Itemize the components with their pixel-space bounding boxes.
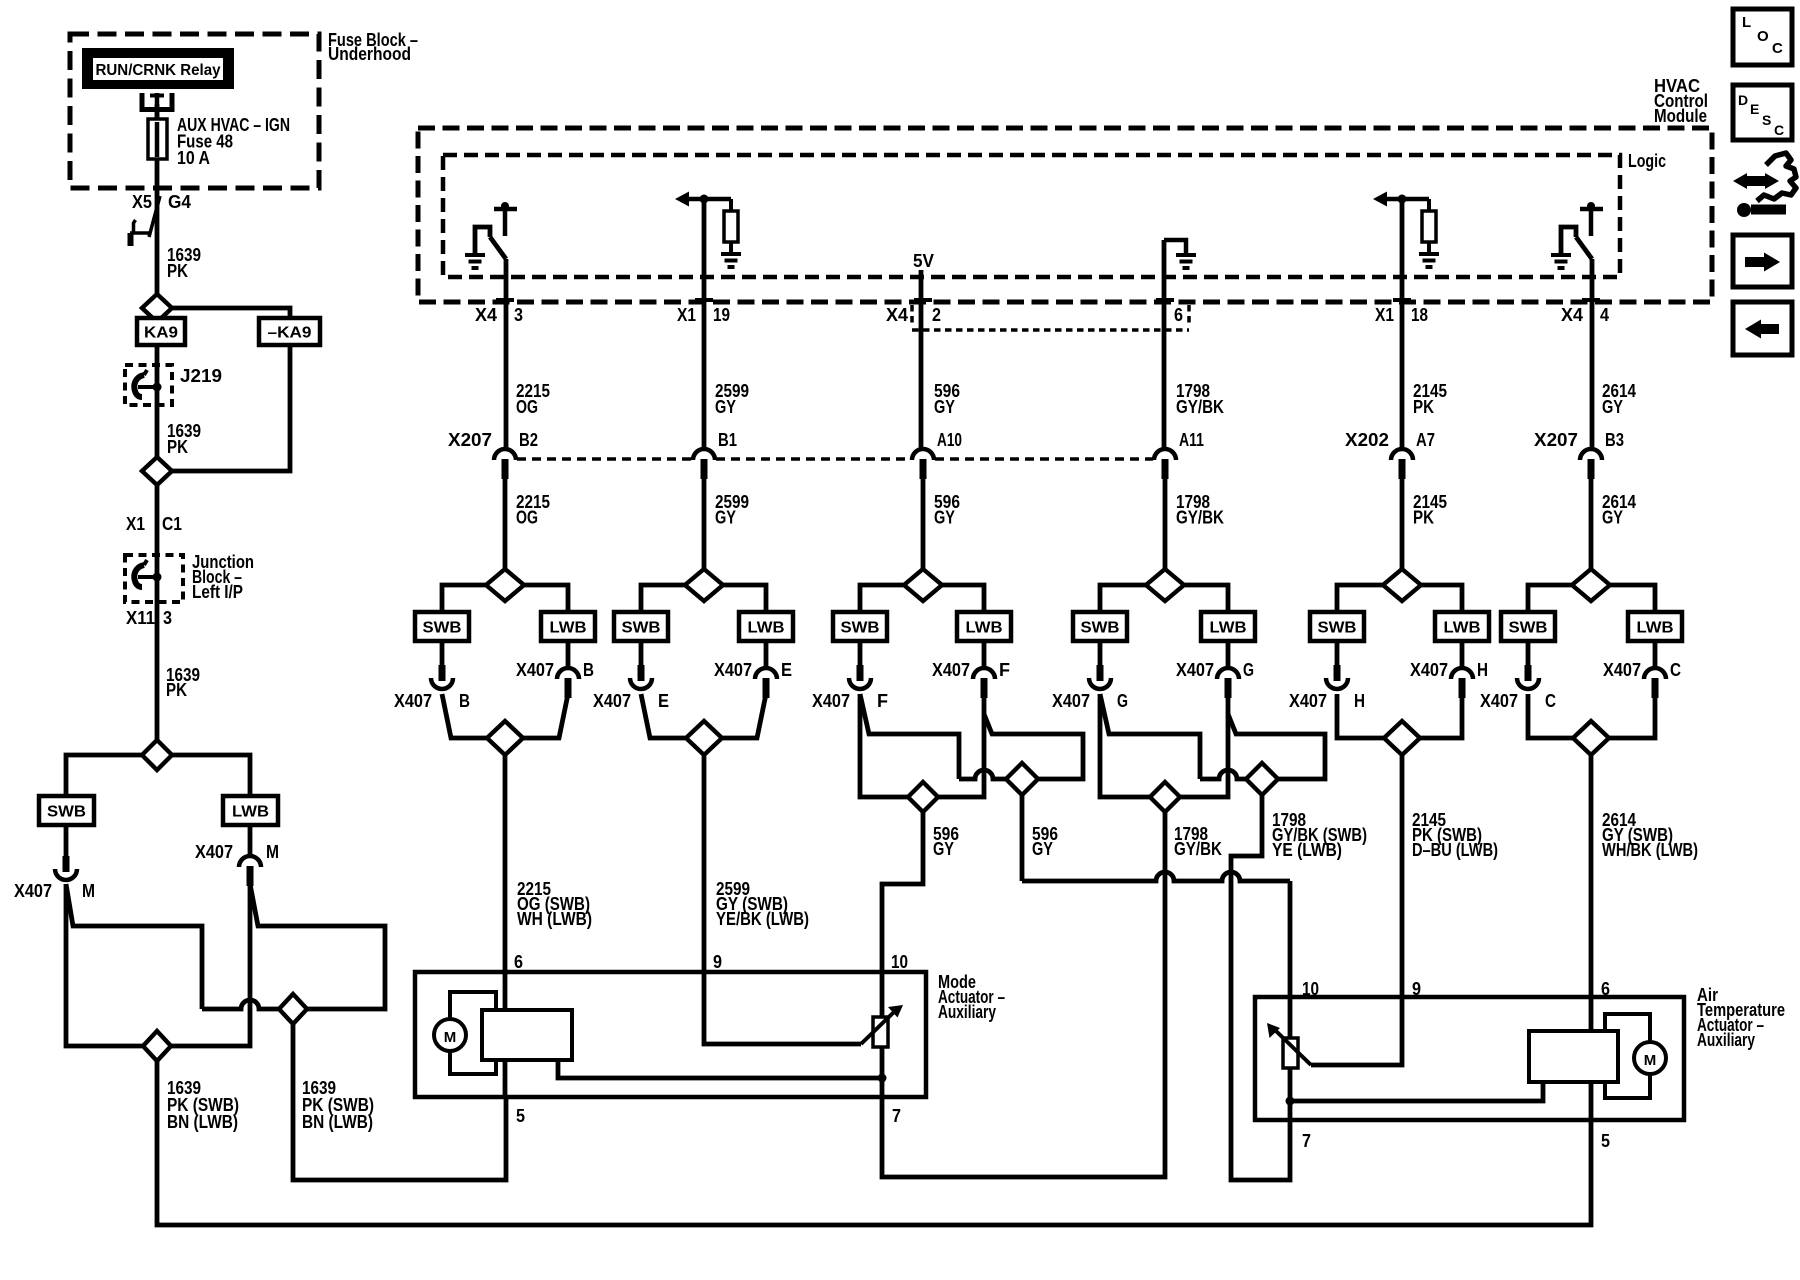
wire label 1639 PK lower xyxy=(166,665,200,700)
wire airtemp pin5 inside xyxy=(1589,1080,1594,1120)
pin tick x505 xyxy=(496,298,514,302)
connector X4 dotted bracket xyxy=(912,305,1189,330)
svg-text:O: O xyxy=(1757,28,1769,45)
wire label 596 GY first xyxy=(933,824,959,859)
junction block label xyxy=(192,552,254,602)
wire label 2599 GY upper x704 xyxy=(715,381,749,417)
svg-text:BN (LWB): BN (LWB) xyxy=(302,1112,373,1132)
connector X407 LWB x704 xyxy=(755,668,777,698)
svg-text:X207: X207 xyxy=(448,430,492,450)
svg-text:M: M xyxy=(1644,1052,1657,1069)
svg-text:S: S xyxy=(1762,112,1771,128)
dashed connector line seg3 xyxy=(935,457,1153,461)
mode potentiometer xyxy=(861,1005,903,1047)
svg-text:GY: GY xyxy=(934,397,955,417)
svg-text:GY: GY xyxy=(933,839,954,859)
svg-text:OG: OG xyxy=(516,397,538,417)
wire label 596 GY lower x923 xyxy=(934,492,960,528)
rejoin diamond x704 xyxy=(686,721,722,755)
connector X407 SWB x923 xyxy=(849,665,871,689)
svg-text:G4: G4 xyxy=(168,192,191,212)
svg-text:GY: GY xyxy=(715,508,736,528)
mode actuator auxiliary box xyxy=(415,972,926,1097)
svg-text:GY/BK: GY/BK xyxy=(1174,839,1222,859)
svg-text:SWB: SWB xyxy=(1081,620,1120,637)
svg-text:M: M xyxy=(82,881,95,901)
svg-text:4: 4 xyxy=(1600,305,1609,325)
wire SWB conn down x505 xyxy=(442,694,487,738)
svg-text:X407: X407 xyxy=(14,881,52,901)
svg-text:X407: X407 xyxy=(394,691,432,711)
svg-text:LWB: LWB xyxy=(1444,620,1481,637)
icon box LOC xyxy=(1733,9,1792,65)
pin tick x1591 xyxy=(1582,298,1600,302)
svg-text:6: 6 xyxy=(1174,305,1183,325)
svg-text:GY/BK: GY/BK xyxy=(1176,508,1224,528)
air temp actuator label xyxy=(1697,985,1785,1050)
svg-text:X407: X407 xyxy=(714,660,752,680)
svg-text:Auxiliary: Auxiliary xyxy=(1697,1030,1755,1050)
wire 596 to airtemp pin10 drop xyxy=(1288,881,1293,997)
wire label 1639 PK mid xyxy=(167,421,201,457)
svg-text:6: 6 xyxy=(1601,979,1610,999)
wire split to LWB x1165 xyxy=(1184,585,1228,612)
pin tick x1402 xyxy=(1393,298,1411,302)
svg-text:3: 3 xyxy=(514,305,523,325)
wire LWB box to conn x1402 xyxy=(1460,641,1465,668)
wire loop to d2 with hop x1165 xyxy=(1200,770,1246,779)
wire col3 5V output xyxy=(919,270,924,448)
wire SWB conn down x1591 xyxy=(1528,694,1573,738)
svg-text:10: 10 xyxy=(1302,979,1319,999)
wire label 2599 GY lower x704 xyxy=(715,492,749,528)
wire 1798 D2 to airtemp pin7 loop xyxy=(1231,795,1290,1180)
relay contact symbol xyxy=(140,93,175,122)
svg-text:A11: A11 xyxy=(1179,430,1204,450)
svg-text:6: 6 xyxy=(514,952,523,972)
wire loop to d2 with hop x923 xyxy=(959,770,1006,779)
wire SWB box to conn x1402 xyxy=(1335,641,1340,667)
wire branch S1 to -KA9 xyxy=(171,308,290,318)
module driver B output arrow xyxy=(675,192,731,207)
wire SWB diag loop a x923 xyxy=(860,694,959,779)
airtemp motor xyxy=(1605,1014,1666,1098)
wire label 1798 GYBK xyxy=(1174,824,1222,859)
wire SWB straight x923 xyxy=(860,694,908,797)
wire split to LWB x505 xyxy=(524,585,568,612)
svg-text:LWB: LWB xyxy=(748,620,785,637)
svg-text:X407: X407 xyxy=(932,660,970,680)
wire x1165 to split diamond xyxy=(1163,475,1168,569)
wire 2145 down to airtemp pin9 xyxy=(1400,755,1405,997)
module switch F switch blade xyxy=(1576,237,1592,259)
dashed connector line seg1 xyxy=(517,457,692,461)
wire LWB straight x1165 xyxy=(1180,694,1228,797)
splice diamond S3 xyxy=(142,740,172,770)
wire split to SWB x505 xyxy=(442,585,486,612)
wire LWB box to conn x923 xyxy=(982,641,987,668)
connector X407 SWB x505 xyxy=(431,665,453,689)
fuse block underhood label xyxy=(328,30,418,64)
svg-text:C: C xyxy=(1670,660,1681,680)
wire SWB box to conn x505 xyxy=(440,641,445,667)
terminal hook in junction block xyxy=(134,560,161,587)
svg-text:J219: J219 xyxy=(180,366,222,386)
wire x505 to split diamond xyxy=(503,475,508,569)
svg-text:B2: B2 xyxy=(519,430,538,450)
svg-text:WH/BK (LWB): WH/BK (LWB) xyxy=(1602,840,1698,860)
mode motor xyxy=(434,992,496,1074)
svg-text:18: 18 xyxy=(1411,305,1428,325)
svg-text:GY: GY xyxy=(715,397,736,417)
wire LWB box to conn x505 xyxy=(566,641,571,668)
svg-text:–KA9: –KA9 xyxy=(268,325,312,342)
module ground col4 xyxy=(1176,255,1196,268)
wire loop to splice S4 with hop xyxy=(202,1000,279,1009)
wire -KA9 down to S2 xyxy=(172,345,290,471)
fuse 48 label xyxy=(177,115,290,168)
splice diamond D1 x923 xyxy=(908,782,938,812)
module switch A chassis ground xyxy=(465,255,485,268)
mode gearbox stub to wiper bus xyxy=(558,1060,878,1078)
module driver E pull-up resistor xyxy=(1422,199,1436,253)
logic dashed box xyxy=(443,155,1620,277)
in-line connector B3 x1591 xyxy=(1580,449,1602,479)
wire label 2614 GY/WHBK xyxy=(1602,810,1698,860)
option box LWB x505 xyxy=(541,612,595,641)
module switch F switch wire to ground xyxy=(1561,227,1576,253)
option box SWB left xyxy=(39,796,94,825)
connector X407 LWB x1402 xyxy=(1451,668,1473,698)
svg-text:F: F xyxy=(999,660,1010,680)
pin tick x1165 xyxy=(1156,298,1174,302)
svg-text:SWB: SWB xyxy=(622,620,661,637)
split diamond x505 xyxy=(486,569,524,601)
wire label 2145 PK lower x1402 xyxy=(1413,492,1447,528)
svg-text:D: D xyxy=(1738,92,1748,108)
option box SWB x1591 xyxy=(1501,612,1555,641)
connector X407 SWB x1402 xyxy=(1326,665,1348,689)
split diamond x923 xyxy=(904,569,942,601)
svg-text:LWB: LWB xyxy=(1637,620,1674,637)
svg-text:OG: OG xyxy=(516,508,538,528)
wire SWB box to conn x1591 xyxy=(1526,641,1531,667)
rejoin diamond x1591 xyxy=(1573,721,1609,755)
wire S3 to SWB-M xyxy=(66,755,142,796)
connector X5 lead symbol xyxy=(130,196,160,246)
wire SWB-M straight down xyxy=(66,884,143,1046)
wire label 2215 OG upper x505 xyxy=(516,381,550,417)
svg-text:SWB: SWB xyxy=(423,620,462,637)
icon DESC letters xyxy=(1738,92,1784,138)
wire loop right of S4 xyxy=(250,884,385,1009)
svg-text:M: M xyxy=(266,842,279,862)
wire label 2215 OG lower x505 xyxy=(516,492,550,528)
airtemp wiper bus to gearbox xyxy=(1290,1082,1543,1101)
svg-text:E: E xyxy=(658,691,669,711)
wire split to LWB x704 xyxy=(723,585,766,612)
svg-text:A10: A10 xyxy=(937,430,962,450)
svg-text:GY: GY xyxy=(1602,508,1623,528)
connector X407 LWB x505 xyxy=(557,668,579,698)
icon LOC letters xyxy=(1742,14,1783,57)
wire label 1798 GY/BK upper x1165 xyxy=(1176,381,1224,417)
option box LWB x1165 xyxy=(1201,612,1255,641)
icon forward arrow xyxy=(1745,253,1780,272)
wire label 1798 GY/BK lower x1165 xyxy=(1176,492,1224,528)
svg-text:F: F xyxy=(877,691,888,711)
option box LWB x923 xyxy=(957,612,1011,641)
wire label 1798 GYBK/YE xyxy=(1272,810,1367,860)
wire split to SWB x704 xyxy=(641,585,685,612)
wire SWB box to conn x923 xyxy=(858,641,863,667)
split diamond x1591 xyxy=(1572,569,1610,601)
svg-text:PK: PK xyxy=(166,680,187,700)
svg-text:PK: PK xyxy=(167,261,188,281)
split diamond x1402 xyxy=(1383,569,1421,601)
mode actuator label xyxy=(938,972,1005,1022)
svg-text:X5: X5 xyxy=(132,192,152,212)
svg-text:PK: PK xyxy=(1413,508,1434,528)
in-line connector A11 x1165 xyxy=(1154,449,1176,479)
wire S5 down to bottom bus xyxy=(157,1061,1591,1225)
svg-text:X407: X407 xyxy=(516,660,554,680)
svg-text:X407: X407 xyxy=(1289,691,1327,711)
svg-text:2: 2 xyxy=(932,305,941,325)
svg-text:7: 7 xyxy=(892,1106,901,1126)
module switch A contact bar xyxy=(494,202,517,236)
svg-text:Logic: Logic xyxy=(1628,151,1666,171)
svg-text:SWB: SWB xyxy=(841,620,880,637)
svg-text:B1: B1 xyxy=(718,430,737,450)
in-line connector B1 x704 xyxy=(693,449,715,479)
module switch F contact bar xyxy=(1580,202,1603,236)
svg-text:7: 7 xyxy=(1302,1131,1311,1151)
svg-text:X4: X4 xyxy=(475,305,497,325)
svg-text:X207: X207 xyxy=(1534,430,1578,450)
option box SWB x505 xyxy=(415,612,469,641)
wire 596 D2 to airtemp pin10 hops xyxy=(1022,872,1290,881)
icon hand with arrows xyxy=(1733,153,1796,217)
dashed connector line seg2 xyxy=(716,457,911,461)
wire label 2599 GY/YEBK xyxy=(716,879,809,929)
svg-text:X407: X407 xyxy=(812,691,850,711)
connector X407 LWB x923 xyxy=(973,668,995,698)
wire col6 module output xyxy=(1590,259,1595,448)
wire SWB conn down x704 xyxy=(641,694,686,738)
svg-text:YE/BK (LWB): YE/BK (LWB) xyxy=(716,909,809,929)
split diamond x1165 xyxy=(1146,569,1184,601)
svg-text:19: 19 xyxy=(713,305,730,325)
wire KA9 down xyxy=(155,345,160,457)
wire LWB-M straight down xyxy=(171,884,250,1046)
svg-text:10 A: 10 A xyxy=(177,148,210,168)
splice diamond S4 xyxy=(279,994,307,1024)
wire d2 to far loop x923 xyxy=(984,714,1083,779)
wire label 596 GY second xyxy=(1032,824,1058,859)
connector X407 SWB x704 xyxy=(630,665,652,689)
svg-text:X407: X407 xyxy=(593,691,631,711)
svg-text:B: B xyxy=(459,691,470,711)
svg-text:Underhood: Underhood xyxy=(328,44,411,64)
svg-text:9: 9 xyxy=(1412,979,1421,999)
fuse block underhood box xyxy=(70,34,319,188)
relay coil KA9 box xyxy=(137,318,185,345)
svg-text:X407: X407 xyxy=(1176,660,1214,680)
svg-text:X407: X407 xyxy=(1480,691,1518,711)
wire airtemp pin9 inside xyxy=(1311,997,1402,1065)
wire label 1639 PK/BN first xyxy=(167,1078,239,1132)
relay RUN/CRNK box xyxy=(82,48,234,89)
wire LWB conn down x704 xyxy=(722,694,766,738)
svg-text:H: H xyxy=(1354,691,1365,711)
svg-text:SWB: SWB xyxy=(1509,620,1548,637)
air temperature actuator auxiliary box xyxy=(1255,997,1684,1120)
module switch A switch wire to ground xyxy=(475,227,490,253)
svg-text:SWB: SWB xyxy=(47,804,86,821)
icon box back arrow xyxy=(1733,302,1792,355)
svg-text:C: C xyxy=(1772,40,1783,57)
svg-text:LWB: LWB xyxy=(966,620,1003,637)
wire LWB box to conn x1165 xyxy=(1226,641,1231,668)
svg-text:X407: X407 xyxy=(1410,660,1448,680)
module driver B resistor ground xyxy=(721,254,741,267)
svg-text:A7: A7 xyxy=(1416,430,1435,450)
wire S4 down to mode actuator pin5 loop xyxy=(293,1024,506,1180)
svg-text:X4: X4 xyxy=(886,305,908,325)
wire label 2145 PK upper x1402 xyxy=(1413,381,1447,417)
connector X407 LWB x1165 xyxy=(1217,668,1239,698)
wire SWB box to conn x1165 xyxy=(1098,641,1103,667)
wire 2614 down to airtemp pin6 xyxy=(1589,755,1594,997)
svg-text:H: H xyxy=(1477,660,1488,680)
wire col4 module output xyxy=(1162,240,1167,448)
svg-text:GY: GY xyxy=(1602,397,1623,417)
wire fuse to X5 xyxy=(155,159,160,293)
splice diamond D2 x1165 xyxy=(1246,763,1278,795)
connector X407 LWB x1591 xyxy=(1644,668,1666,698)
wire SWB box to conn x704 xyxy=(639,641,644,667)
svg-text:C: C xyxy=(1545,691,1556,711)
connector X407 SWB x1591 xyxy=(1517,665,1539,689)
mode wiper junction dot xyxy=(878,1074,887,1083)
wire label 2145 PK/DBU xyxy=(1412,810,1498,860)
option box SWB x923 xyxy=(833,612,887,641)
wire LWB box to conn x1591 xyxy=(1653,641,1658,668)
svg-text:YE (LWB): YE (LWB) xyxy=(1272,840,1342,860)
wire LWB conn down x1402 xyxy=(1420,694,1462,738)
svg-text:LWB: LWB xyxy=(232,804,269,821)
svg-text:PK: PK xyxy=(167,437,188,457)
wire LWB straight x923 xyxy=(938,694,984,797)
svg-text:D–BU (LWB): D–BU (LWB) xyxy=(1412,840,1498,860)
module ground hook col4 xyxy=(1164,240,1186,254)
wire x1591 to split diamond xyxy=(1589,475,1594,569)
wire mode pin9 inside xyxy=(704,972,861,1044)
svg-text:X407: X407 xyxy=(1052,691,1090,711)
svg-text:X407: X407 xyxy=(1603,660,1641,680)
option box SWB x1165 xyxy=(1073,612,1127,641)
splice diamond D1 x1165 xyxy=(1150,782,1180,812)
splice diamond S5 xyxy=(143,1031,171,1061)
wire SWB straight x1165 xyxy=(1100,694,1150,797)
svg-text:C: C xyxy=(1774,122,1784,138)
split diamond x704 xyxy=(685,569,723,601)
svg-text:SWB: SWB xyxy=(1318,620,1357,637)
airtemp potentiometer xyxy=(1267,1023,1311,1068)
connector X407-M LWB xyxy=(239,856,261,886)
svg-text:X1: X1 xyxy=(677,305,696,325)
wire split to SWB x1165 xyxy=(1100,585,1146,612)
option box LWB left xyxy=(223,796,278,825)
wire SWB-M diagonal loop xyxy=(66,884,202,1009)
airtemp wiper junction dot xyxy=(1286,1097,1295,1106)
svg-text:LWB: LWB xyxy=(1210,620,1247,637)
in-line connector A10 x923 xyxy=(912,449,934,479)
rejoin diamond x505 xyxy=(487,721,523,755)
svg-text:5: 5 xyxy=(1601,1131,1610,1151)
svg-text:M: M xyxy=(444,1029,457,1046)
module switch A switch blade xyxy=(490,237,506,259)
wire col5 module output xyxy=(1400,199,1405,448)
option box LWB x1402 xyxy=(1435,612,1489,641)
svg-text:E: E xyxy=(1750,101,1759,117)
svg-text:LWB: LWB xyxy=(550,620,587,637)
svg-text:KA9: KA9 xyxy=(144,325,178,342)
module driver B pull-up resistor xyxy=(724,199,738,253)
connector X407 SWB x1165 xyxy=(1089,665,1111,689)
svg-text:X4: X4 xyxy=(1561,305,1583,325)
svg-text:WH (LWB): WH (LWB) xyxy=(517,909,592,929)
wire x704 to split diamond xyxy=(702,475,707,569)
svg-text:X202: X202 xyxy=(1345,430,1389,450)
wire split to LWB x923 xyxy=(942,585,984,612)
terminal hook in J219 xyxy=(134,370,161,397)
icon box DESC xyxy=(1733,85,1792,140)
junction block left I/P dashed box xyxy=(125,555,183,602)
relay contact -KA9 box xyxy=(259,318,320,345)
wire x923 to split diamond xyxy=(921,475,926,569)
wire col2 module output xyxy=(702,199,707,448)
wire label 2215 OG/WH xyxy=(517,879,592,929)
svg-text:G: G xyxy=(1243,660,1254,680)
svg-text:B3: B3 xyxy=(1605,430,1624,450)
wire label 1639 PK/BN second xyxy=(302,1078,374,1132)
airtemp gearbox xyxy=(1529,1031,1618,1082)
module driver E resistor ground xyxy=(1419,254,1439,267)
svg-text:X1: X1 xyxy=(126,514,145,534)
svg-text:E: E xyxy=(781,660,792,680)
wire S2 down to junction block xyxy=(155,485,160,741)
svg-text:Auxiliary: Auxiliary xyxy=(938,1002,996,1022)
wire S3 to LWB-M xyxy=(172,755,250,796)
svg-text:G: G xyxy=(1117,691,1128,711)
connector X407-M SWB xyxy=(55,856,77,880)
svg-text:5V: 5V xyxy=(913,251,934,271)
svg-text:Left I/P: Left I/P xyxy=(192,582,243,602)
svg-text:3: 3 xyxy=(163,608,172,628)
svg-text:BN (LWB): BN (LWB) xyxy=(167,1112,238,1132)
icon box forward arrow xyxy=(1733,235,1792,287)
wire split to SWB x1402 xyxy=(1337,585,1383,612)
option box SWB x1402 xyxy=(1310,612,1364,641)
rejoin diamond x1402 xyxy=(1384,721,1420,755)
svg-text:10: 10 xyxy=(891,952,908,972)
in-line connector A7 x1402 xyxy=(1391,449,1413,479)
wire SWB conn down x1402 xyxy=(1337,694,1384,738)
pin tick x704 xyxy=(695,298,713,302)
wire mode pin5 inside xyxy=(503,1058,508,1097)
